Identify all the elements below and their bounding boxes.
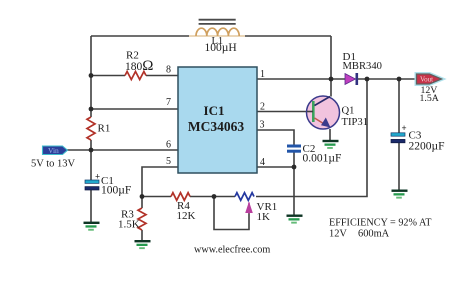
wire pin 1 to D1 anode xyxy=(257,78,345,80)
wire C1 to ground xyxy=(90,190,92,222)
svg-text:180Ω: 180Ω xyxy=(125,58,153,74)
wire Vin node down to C1 xyxy=(90,150,92,180)
node Vin input flag xyxy=(43,146,68,155)
svg-text:1.5K: 1.5K xyxy=(118,219,140,231)
svg-text:R2: R2 xyxy=(126,50,139,62)
resistor R1 xyxy=(87,117,95,140)
wire pin 4 xyxy=(257,166,294,168)
svg-text:5: 5 xyxy=(166,156,171,167)
node junction Vin input xyxy=(89,148,94,153)
capacitor C2 xyxy=(287,145,301,153)
diode D1 xyxy=(345,73,358,85)
ground C1 xyxy=(84,222,100,231)
wire top rail drop to collector xyxy=(330,36,332,97)
node junction C2 pin4 xyxy=(292,165,297,170)
node junction pin5 R3 R4 xyxy=(140,194,145,199)
wire R2 left lead xyxy=(91,75,125,77)
svg-text:0.001µF: 0.001µF xyxy=(303,153,342,165)
capacitor C3 xyxy=(391,123,407,143)
resistor R4 xyxy=(171,193,190,201)
node junction R2 tap xyxy=(89,73,94,78)
svg-text:Vout: Vout xyxy=(420,76,433,84)
IC U1 MC34063 xyxy=(178,67,257,173)
svg-text:7: 7 xyxy=(166,97,171,108)
wire R3 bottom lead to ground xyxy=(141,230,143,241)
wire pin 2 to Q1 base xyxy=(257,111,307,113)
wire R3 top lead xyxy=(141,197,143,209)
wire Q1 emitter to ground xyxy=(329,129,331,140)
svg-text:MBR340: MBR340 xyxy=(343,61,382,72)
inductor L1 xyxy=(196,20,239,36)
node junction pin7 tap xyxy=(89,107,94,112)
ground R3 xyxy=(135,240,151,249)
svg-text:Q1: Q1 xyxy=(342,106,355,117)
wire Vin to pin 6 xyxy=(67,149,178,151)
svg-text:100µH: 100µH xyxy=(205,42,237,54)
svg-text:IC1: IC1 xyxy=(204,103,225,118)
resistor R2 xyxy=(125,72,146,80)
wire left column R1 to Vin node xyxy=(90,140,92,150)
wire C3 column top xyxy=(398,79,400,133)
wire left column upper xyxy=(90,36,92,117)
node Vout output flag xyxy=(417,74,442,84)
svg-text:2200µF: 2200µF xyxy=(409,141,445,153)
wire R4 to VR1 xyxy=(190,196,235,198)
svg-text:12V600mA: 12V600mA xyxy=(329,229,390,240)
svg-text:12K: 12K xyxy=(177,210,196,222)
capacitor C1 xyxy=(85,172,100,191)
svg-text:100µF: 100µF xyxy=(101,185,131,197)
wire pin4 node to ground xyxy=(293,167,295,215)
wire light lead under L1 xyxy=(189,35,245,37)
ground C2 pin4 xyxy=(287,215,303,224)
svg-text:www.elecfree.com: www.elecfree.com xyxy=(194,245,270,256)
ground Q1 emitter xyxy=(323,140,339,149)
transistor Q1 xyxy=(307,96,340,129)
svg-text:Vin: Vin xyxy=(48,146,59,155)
node junction L1 D1 collector xyxy=(329,77,334,82)
svg-text:MC34063: MC34063 xyxy=(188,119,244,134)
svg-text:6: 6 xyxy=(166,140,171,151)
wire R4 row left lead xyxy=(142,196,171,198)
wire C2 bottom to pin4 node xyxy=(293,153,295,168)
svg-text:1.5A: 1.5A xyxy=(420,93,439,104)
node junction feedback tap xyxy=(365,77,370,82)
svg-text:1: 1 xyxy=(260,69,265,80)
wire C3 bottom to ground xyxy=(398,143,400,190)
svg-text:R1: R1 xyxy=(98,123,111,135)
svg-text:4: 4 xyxy=(260,157,265,168)
resistor R3 xyxy=(138,208,146,230)
wire VR1 wiper loop xyxy=(214,197,249,230)
svg-text:3: 3 xyxy=(260,120,265,131)
wire D1 cathode to Vout xyxy=(358,78,418,80)
wire feedback from Vout rail down and left to VR1 xyxy=(256,79,367,197)
svg-text:8: 8 xyxy=(166,65,171,76)
svg-text:1K: 1K xyxy=(257,211,271,223)
svg-text:2: 2 xyxy=(260,102,265,113)
wire R2 right lead to pin 8 xyxy=(146,75,178,77)
svg-text:+: + xyxy=(402,123,407,133)
wire top rail right of L1 xyxy=(245,35,331,37)
wire pin 5 to feedback node xyxy=(142,167,178,197)
node junction R4 VR1 wiper xyxy=(212,194,217,199)
ground C3 xyxy=(392,190,408,199)
potentiometer VR1 xyxy=(235,193,254,214)
svg-text:TIP31: TIP31 xyxy=(342,117,368,128)
svg-text:5V to 13V: 5V to 13V xyxy=(31,159,76,170)
svg-text:EFFICIENCY = 92% AT: EFFICIENCY = 92% AT xyxy=(329,218,432,229)
wire top rail xyxy=(91,35,189,37)
wire pin 7 xyxy=(91,108,178,110)
node junction C3 tap xyxy=(397,77,402,82)
wire pin 3 to C2 top xyxy=(257,130,294,145)
